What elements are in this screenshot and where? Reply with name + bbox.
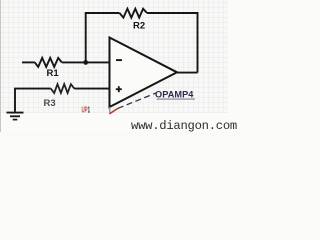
schematic canvas background (0, 0, 240, 132)
wire: top lead from riser to R2 (85, 12, 120, 14)
svg-text:OPAMP4: OPAMP4 (155, 90, 194, 100)
wire: ground to R3 (14, 88, 51, 90)
left screenshot edge line (0, 0, 1, 132)
wire: feedback left vertical riser (85, 13, 87, 62)
ground (7, 89, 24, 120)
resistor R2 (120, 9, 148, 18)
op-amp reference label OPAMP4 (155, 90, 195, 100)
wire: R3 to non-inverting input (74, 88, 109, 90)
svg-text:R3: R3 (44, 98, 56, 109)
node: junction dot at feedback tap (83, 60, 88, 65)
svg-text:R1: R1 (47, 68, 60, 79)
wire: R2 to top-right corner (147, 12, 198, 14)
svg-text:www.diangon.com: www.diangon.com (131, 119, 237, 132)
op-amp inverting input symbol (116, 59, 122, 61)
resistor R3 (51, 84, 75, 93)
op-amp U1 triangle (110, 38, 178, 108)
wire: grey pin stub below + input (109, 107, 111, 114)
wire: input lead into R1 (22, 61, 35, 63)
wire: red pin segment of annotation line (110, 108, 118, 114)
wire: right vertical drop to output (197, 12, 199, 73)
op-amp non-inverting input symbol (116, 86, 122, 92)
wire: op-amp output to feedback corner (177, 72, 198, 74)
svg-text:R2: R2 (133, 21, 145, 32)
svg-text:UP1: UP1 (82, 106, 91, 115)
resistor R1 (35, 58, 62, 67)
wire: R1 to inverting input (through junction) (62, 61, 110, 63)
wire: dashed annotation diagonal to OPAMP4 (118, 93, 157, 109)
